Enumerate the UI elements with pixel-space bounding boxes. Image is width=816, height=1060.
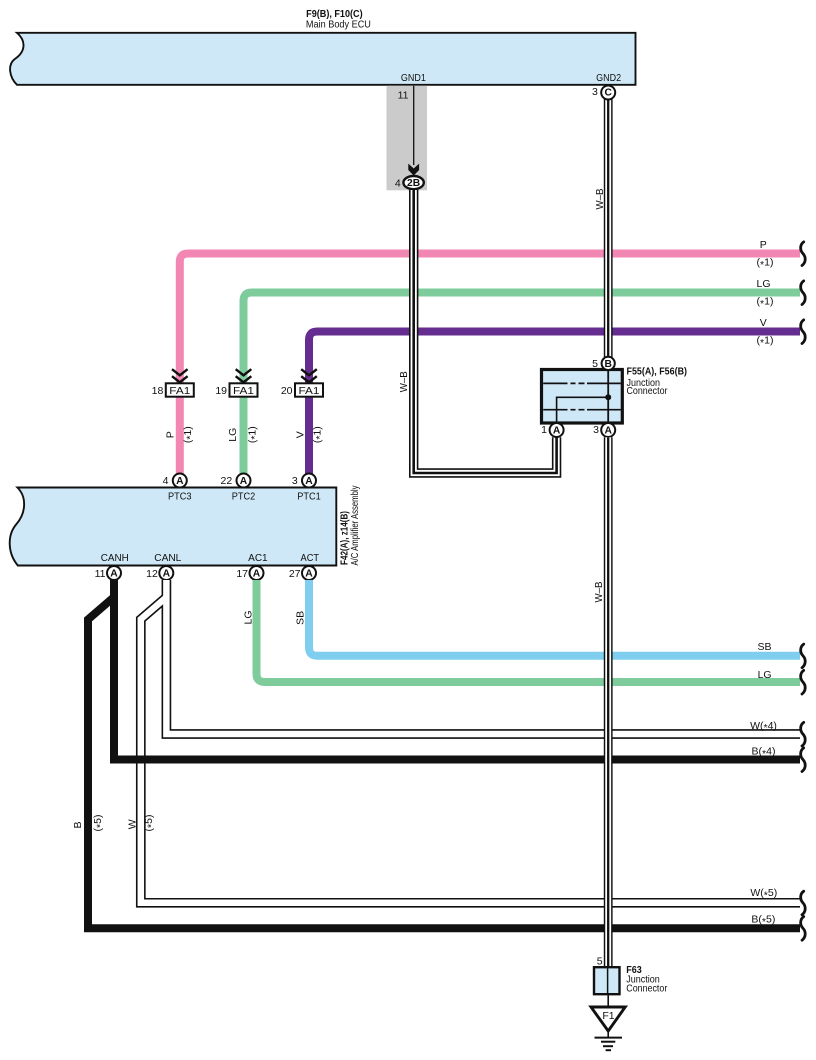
wire LG horizontal from right edge down to FA1 19 <box>244 293 801 474</box>
svg-text:Connector: Connector <box>626 983 667 995</box>
wire W-B from junction pin 3 down to F63 <box>604 437 613 968</box>
svg-text:27: 27 <box>289 568 301 580</box>
svg-text:CANH: CANH <box>101 552 129 564</box>
svg-text:4: 4 <box>163 475 169 487</box>
svg-text:4: 4 <box>395 178 401 190</box>
svg-text:5: 5 <box>597 956 603 968</box>
wire GND1 to connector 2B <box>413 86 415 165</box>
svg-text:11: 11 <box>398 90 409 102</box>
wire B branch to B(*5) right edge <box>88 597 800 928</box>
continuation brace B(*5) <box>801 917 806 941</box>
svg-text:22: 22 <box>221 475 233 487</box>
svg-text:17: 17 <box>236 568 248 580</box>
svg-text:GND1: GND1 <box>401 72 426 84</box>
svg-text:5: 5 <box>592 358 598 370</box>
svg-text:A: A <box>163 569 171 580</box>
svg-text:18: 18 <box>152 385 164 397</box>
svg-text:B: B <box>604 359 611 370</box>
svg-text:3: 3 <box>593 424 599 436</box>
svg-text:A: A <box>110 569 118 580</box>
wire W-B from 2B down and right to junction pin 1 <box>414 190 557 473</box>
svg-text:A: A <box>240 476 248 487</box>
continuation brace B(*4) <box>801 748 806 772</box>
bus line 1 inside junction connector <box>543 382 621 384</box>
svg-text:W–B: W–B <box>398 371 410 392</box>
junction connector F63 <box>594 967 620 994</box>
ground hatch <box>607 1031 609 1038</box>
svg-text:LG: LG <box>758 669 772 681</box>
svg-text:Connector: Connector <box>627 385 668 397</box>
component block: A/C Amplifier Assembly F42(A), z14(B) <box>10 488 337 566</box>
svg-text:LG: LG <box>227 428 239 442</box>
svg-text:11: 11 <box>95 568 106 580</box>
arrow chevrons above FA1 19 <box>236 369 252 382</box>
wire W CANL white core <box>166 580 800 734</box>
svg-text:A: A <box>176 476 184 487</box>
svg-text:LG: LG <box>756 278 770 290</box>
svg-text:W–B: W–B <box>594 189 606 210</box>
svg-text:PTC1: PTC1 <box>297 491 321 503</box>
svg-text:A: A <box>253 569 261 580</box>
junction dot <box>605 394 611 400</box>
connector circle C <box>601 86 615 100</box>
svg-text:SB: SB <box>757 641 771 653</box>
svg-text:ACT: ACT <box>301 552 320 564</box>
svg-text:W: W <box>127 819 139 829</box>
wire B CANH to B(*4) right edge <box>114 580 800 760</box>
svg-text:12: 12 <box>146 568 158 580</box>
wire V horizontal from right edge down to FA1 20 <box>309 332 800 474</box>
svg-text:A: A <box>305 569 313 580</box>
svg-text:3: 3 <box>592 86 598 98</box>
continuation brace V <box>801 320 806 344</box>
wire F63 to ground <box>607 994 609 1007</box>
bus line 2 inside junction connector <box>543 409 621 411</box>
arrowhead into 2B <box>408 164 419 176</box>
svg-text:A: A <box>305 476 313 487</box>
svg-text:A: A <box>604 426 612 437</box>
svg-text:W–B: W–B <box>593 582 605 603</box>
wire LG from AC1 to right edge <box>257 580 801 682</box>
wire W-B from GND2 pin C to junction pin 5 <box>604 99 613 357</box>
wire W branch to W(*5) right edge (outline) <box>141 597 800 903</box>
ground F1 triangle <box>591 1007 625 1031</box>
svg-text:A: A <box>553 426 561 437</box>
svg-text:Main Body ECU: Main Body ECU <box>306 19 371 31</box>
svg-text:V: V <box>295 431 307 438</box>
svg-text:A/C Amplifier Assembly: A/C Amplifier Assembly <box>349 485 361 566</box>
svg-text:2B: 2B <box>407 178 420 189</box>
svg-text:B: B <box>72 821 84 828</box>
wire SB from ACT to right edge <box>309 580 800 656</box>
continuation brace W(*4) <box>801 722 806 746</box>
junction connector F55(A), F56(B) <box>542 370 623 424</box>
wire W branch white core <box>141 597 800 903</box>
svg-text:P: P <box>760 239 767 251</box>
connector block: Main Body ECU F9(B), F10(C) <box>10 33 635 85</box>
wire P horizontal from right edge down to FA1 18 <box>180 254 800 474</box>
svg-text:SB: SB <box>295 611 307 625</box>
svg-text:20: 20 <box>281 385 293 397</box>
internal wire pin 1 to junction dot <box>557 397 606 422</box>
svg-text:F55(A), F56(B): F55(A), F56(B) <box>627 366 688 378</box>
svg-text:3: 3 <box>292 475 298 487</box>
svg-text:V: V <box>760 317 767 329</box>
svg-text:F1: F1 <box>602 1010 614 1022</box>
svg-text:FA1: FA1 <box>233 385 254 397</box>
svg-text:19: 19 <box>215 385 227 397</box>
svg-text:PTC3: PTC3 <box>168 491 192 503</box>
connector 2B <box>403 176 423 189</box>
svg-text:FA1: FA1 <box>169 385 190 397</box>
svg-text:AC1: AC1 <box>248 552 268 564</box>
svg-text:GND2: GND2 <box>596 72 621 84</box>
svg-text:PTC2: PTC2 <box>232 491 256 503</box>
continuation brace P <box>801 242 806 266</box>
arrow chevrons above FA1 20 <box>301 369 317 382</box>
continuation brace SB <box>801 644 806 668</box>
arrow chevrons above FA1 18 <box>172 369 188 382</box>
shield gray region under GND1 <box>387 86 428 191</box>
svg-text:P: P <box>165 431 177 438</box>
continuation brace LG <box>801 281 806 305</box>
svg-text:C: C <box>604 88 612 99</box>
svg-text:1: 1 <box>541 424 547 436</box>
wire W CANL to W(*4) right edge (outline) <box>166 580 800 734</box>
continuation brace W(*5) <box>801 891 806 915</box>
svg-text:CANL: CANL <box>154 552 181 564</box>
internal wire pin 5 to pin 3 <box>607 371 609 422</box>
svg-text:FA1: FA1 <box>299 385 320 397</box>
continuation brace LG lower <box>801 670 806 694</box>
svg-text:LG: LG <box>242 610 254 624</box>
connector circle B <box>602 357 615 370</box>
